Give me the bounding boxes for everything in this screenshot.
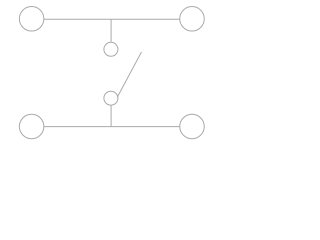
terminal node D (bottom-right) bbox=[180, 114, 205, 139]
switch SW1 contact (top) bbox=[104, 42, 118, 56]
terminal node C (bottom-left) bbox=[19, 114, 43, 139]
switch SW1 lever (open) bbox=[117, 52, 141, 97]
wire bottom rail bbox=[44, 126, 180, 128]
terminal node B (top-right) bbox=[180, 7, 205, 32]
wire switch stub bottom bbox=[110, 105, 112, 126]
wire switch stub top bbox=[110, 19, 112, 42]
wire top rail bbox=[44, 18, 180, 20]
switch SW1 contact (bottom) bbox=[104, 91, 118, 105]
terminal node A (top-left) bbox=[19, 7, 43, 32]
